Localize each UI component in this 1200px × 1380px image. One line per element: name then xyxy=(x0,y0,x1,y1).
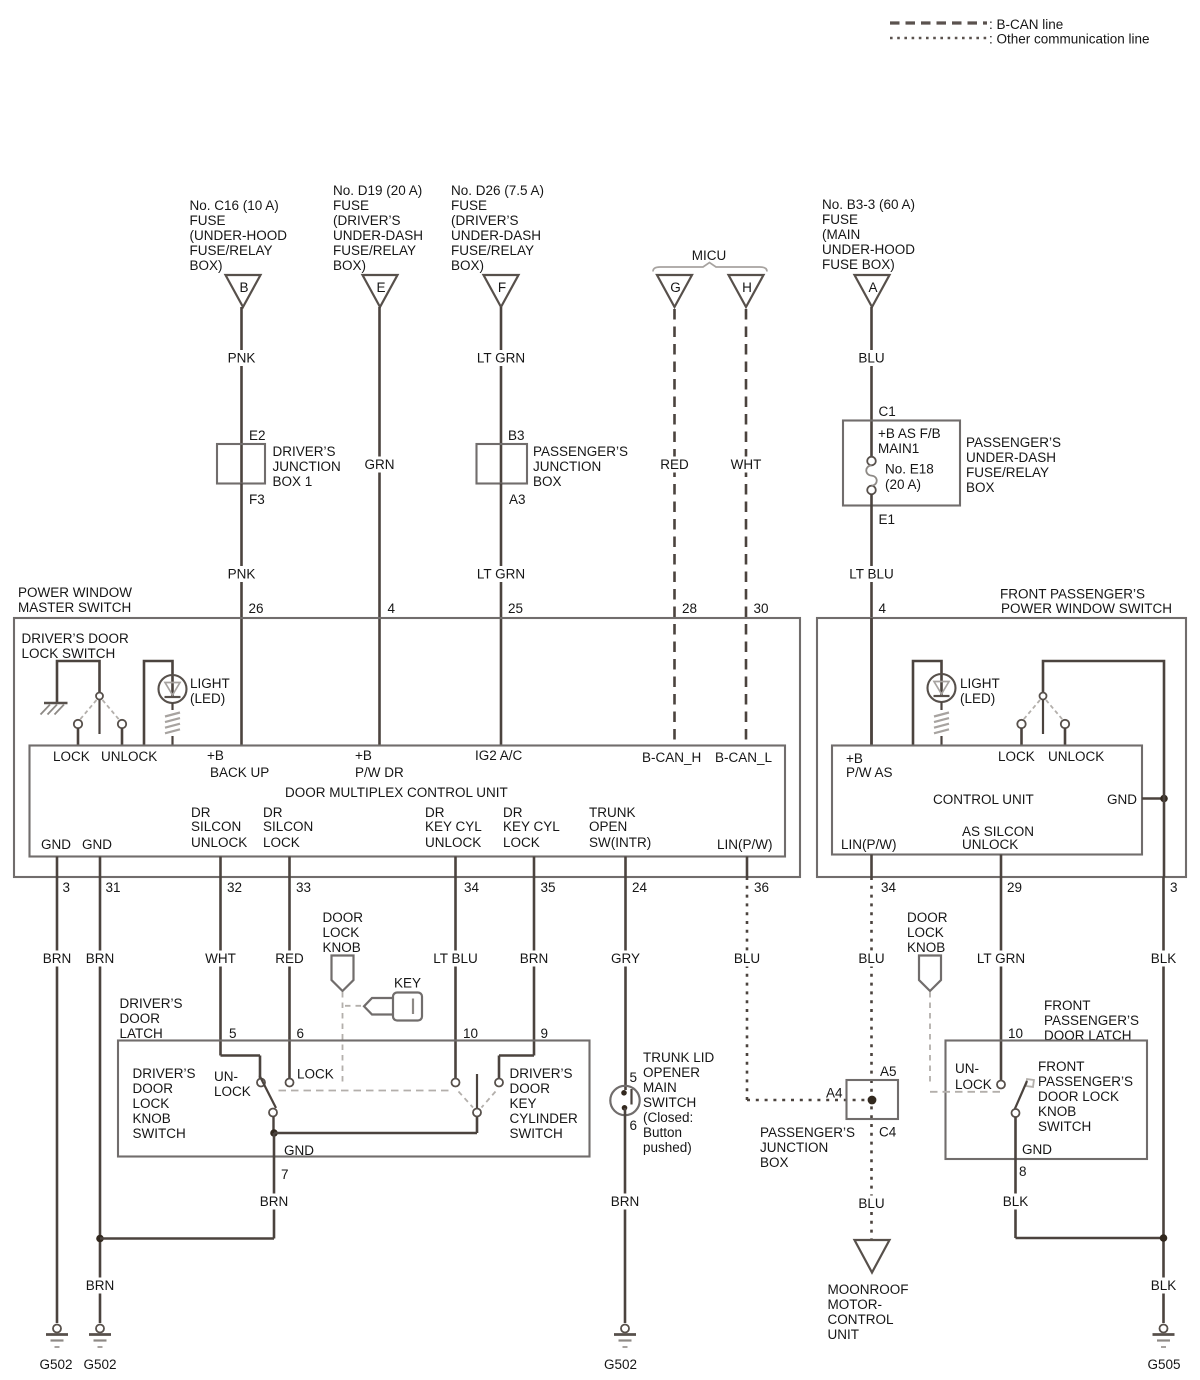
svg-text:34: 34 xyxy=(881,880,897,895)
svg-text:BRN: BRN xyxy=(260,1194,289,1209)
svg-text:KEY: KEY xyxy=(394,976,421,991)
svg-text:UNLOCK: UNLOCK xyxy=(191,835,247,850)
key cylinder actuator xyxy=(476,1074,478,1108)
svg-text:10: 10 xyxy=(463,1026,478,1041)
svg-text:CONTROL: CONTROL xyxy=(828,1312,894,1327)
svg-text:P/W DR: P/W DR xyxy=(355,765,404,780)
UN-LOCK label xyxy=(214,1069,251,1099)
svg-text:DRIVER’S: DRIVER’S xyxy=(510,1066,573,1081)
driver door lock knob switch label xyxy=(133,1066,196,1141)
UN-LOCK label right xyxy=(955,1061,992,1092)
driver LED resistor xyxy=(165,703,180,746)
svg-text:29: 29 xyxy=(1007,880,1022,895)
svg-text:(20 A): (20 A) xyxy=(885,477,921,492)
svg-text:DRIVER’S: DRIVER’S xyxy=(273,444,336,459)
svg-text:P/W AS: P/W AS xyxy=(846,765,893,780)
passenger switch dashed throws xyxy=(1024,700,1063,720)
driver door key cylinder switch label xyxy=(510,1066,579,1141)
wire RED pin 33 to latch xyxy=(272,857,308,1079)
svg-text:POWER WINDOW SWITCH: POWER WINDOW SWITCH xyxy=(1001,601,1172,616)
svg-text:6: 6 xyxy=(297,1026,305,1041)
svg-text:MASTER SWITCH: MASTER SWITCH xyxy=(18,600,131,615)
svg-text:B-CAN_L: B-CAN_L xyxy=(715,750,773,765)
svg-text:BACK UP: BACK UP xyxy=(210,765,269,780)
svg-text:G502: G502 xyxy=(604,1357,637,1372)
svg-text:C4: C4 xyxy=(879,1125,897,1140)
svg-text:TRUNK LID: TRUNK LID xyxy=(643,1050,715,1065)
svg-text:DR: DR xyxy=(191,805,211,820)
key cylinder pivot xyxy=(473,1109,481,1117)
svg-text:GRN: GRN xyxy=(365,457,395,472)
svg-text:3: 3 xyxy=(1170,880,1178,895)
fuse No. E18 symbol xyxy=(866,457,877,495)
svg-text:LOCK: LOCK xyxy=(214,1084,251,1099)
svg-text:35: 35 xyxy=(541,880,556,895)
svg-text:30: 30 xyxy=(754,601,769,616)
svg-text:25: 25 xyxy=(508,601,523,616)
svg-text:MICU: MICU xyxy=(692,248,727,263)
key cylinder lock contact xyxy=(495,1079,503,1087)
svg-text:UNLOCK: UNLOCK xyxy=(1048,749,1104,764)
svg-text:DOOR: DOOR xyxy=(907,910,948,925)
driver door latch label xyxy=(120,996,183,1041)
wire BRN pin 31 to G502 xyxy=(83,857,117,1324)
svg-text:UNDER-DASH: UNDER-DASH xyxy=(451,228,541,243)
svg-text:OPENER: OPENER xyxy=(643,1065,700,1080)
driver junction box 1 xyxy=(217,428,266,507)
svg-text:UNLOCK: UNLOCK xyxy=(425,835,481,850)
svg-text:LOCK: LOCK xyxy=(263,835,300,850)
svg-text:BLK: BLK xyxy=(1151,951,1177,966)
svg-text:BOX 1: BOX 1 xyxy=(273,474,313,489)
svg-text:A4: A4 xyxy=(826,1086,843,1101)
svg-text:KEY: KEY xyxy=(510,1096,537,1111)
wire BRN pin 35 to latch xyxy=(499,857,552,1079)
fuse connector E xyxy=(363,275,398,307)
svg-text:UN-: UN- xyxy=(955,1061,979,1076)
svg-text:LT BLU: LT BLU xyxy=(849,567,894,582)
svg-text:FUSE/RELAY: FUSE/RELAY xyxy=(966,465,1049,480)
svg-text:FRONT PASSENGER’S: FRONT PASSENGER’S xyxy=(1000,587,1145,602)
front passenger door latch label xyxy=(1044,998,1139,1043)
trunk lid opener main switch xyxy=(610,1086,639,1115)
svg-text:BRN: BRN xyxy=(86,951,115,966)
svg-text:LT GRN: LT GRN xyxy=(977,951,1025,966)
svg-text:CONTROL UNIT: CONTROL UNIT xyxy=(933,792,1034,807)
svg-text:DR: DR xyxy=(425,805,445,820)
wire LT GRN pin 29 to latch xyxy=(973,855,1029,1081)
wire GRY pin 24 to trunk switch xyxy=(608,857,644,1091)
svg-text:BLU: BLU xyxy=(858,351,884,366)
svg-text:4: 4 xyxy=(388,601,396,616)
svg-text:DOOR: DOOR xyxy=(120,1011,161,1026)
svg-text:PASSENGER’S: PASSENGER’S xyxy=(760,1125,855,1140)
wire WHT pin 32 to latch xyxy=(201,857,261,1079)
svg-text:H: H xyxy=(742,280,752,295)
svg-text:B-CAN_H: B-CAN_H xyxy=(642,750,701,765)
svg-text:FUSE BOX): FUSE BOX) xyxy=(822,257,895,272)
svg-text:DOOR MULTIPLEX CONTROL UNIT: DOOR MULTIPLEX CONTROL UNIT xyxy=(285,785,508,800)
key cylinder unlock contact xyxy=(452,1079,460,1087)
front passenger power window switch label xyxy=(1000,587,1172,617)
svg-text:36: 36 xyxy=(754,880,769,895)
svg-text:G505: G505 xyxy=(1147,1357,1180,1372)
wire RED B-CAN from MICU G to pin 28 xyxy=(656,309,694,746)
passenger LED loop wire xyxy=(913,661,942,746)
MICU connector G xyxy=(657,275,692,307)
svg-text:SWITCH: SWITCH xyxy=(1038,1119,1091,1134)
junction dot BRN rail xyxy=(96,1235,104,1243)
svg-text:(DRIVER’S: (DRIVER’S xyxy=(451,213,519,228)
MICU connector H xyxy=(729,275,764,307)
svg-text:GRY: GRY xyxy=(611,951,640,966)
svg-text:33: 33 xyxy=(296,880,311,895)
svg-text:PNK: PNK xyxy=(228,351,256,366)
svg-text:IG2 A/C: IG2 A/C xyxy=(475,748,523,763)
passenger junction box (top) xyxy=(477,428,528,507)
svg-text:BRN: BRN xyxy=(86,1278,115,1293)
svg-text:No. D26 (7.5 A): No. D26 (7.5 A) xyxy=(451,183,544,198)
wire BLK pin 3 to G505 xyxy=(1147,877,1181,1323)
GND rail to key cylinder xyxy=(274,1117,477,1134)
svg-text:10: 10 xyxy=(1008,1026,1023,1041)
driver LED loop wire xyxy=(144,661,173,746)
svg-text:MAIN1: MAIN1 xyxy=(878,441,919,456)
front passenger door lock knob switch label xyxy=(1038,1059,1133,1134)
passenger junction box (bottom) xyxy=(847,1080,899,1119)
svg-text:FUSE/RELAY: FUSE/RELAY xyxy=(451,243,534,258)
wire LT BLU from fuse box E1 to pin 4 xyxy=(846,494,898,746)
svg-text:(Closed:: (Closed: xyxy=(643,1110,693,1125)
svg-text:LOCK: LOCK xyxy=(998,749,1035,764)
svg-text:SWITCH: SWITCH xyxy=(133,1126,186,1141)
svg-text:BLK: BLK xyxy=(1003,1194,1029,1209)
wire BLU LIN pin 36 dotted xyxy=(730,857,868,1101)
knob switch arm xyxy=(260,1076,277,1109)
svg-text:BLU: BLU xyxy=(858,951,884,966)
svg-text:WHT: WHT xyxy=(731,457,762,472)
dashed link knob to switch xyxy=(342,992,344,1086)
svg-text:F3: F3 xyxy=(249,492,265,507)
svg-text:(LED): (LED) xyxy=(960,691,995,706)
svg-text:RED: RED xyxy=(660,457,689,472)
svg-text:5: 5 xyxy=(229,1026,237,1041)
knob switch pivot xyxy=(269,1109,277,1132)
svg-text:No. C16 (10 A): No. C16 (10 A) xyxy=(190,198,279,213)
svg-text:: Other communication line: : Other communication line xyxy=(989,32,1150,47)
wire PNK from fuse B to junction box E2 xyxy=(223,307,261,444)
svg-text:JUNCTION: JUNCTION xyxy=(273,459,341,474)
legend B-CAN line sample xyxy=(890,17,1063,32)
svg-text:Button: Button xyxy=(643,1125,682,1140)
door lock knob symbol left xyxy=(332,956,354,992)
svg-text:GND: GND xyxy=(82,837,112,852)
svg-text:E: E xyxy=(376,280,385,295)
fuse No. C16 label xyxy=(190,198,288,273)
driver door lock switch label xyxy=(22,631,130,661)
svg-text:GND: GND xyxy=(1107,792,1137,807)
svg-text:FRONT: FRONT xyxy=(1044,998,1091,1013)
wire PNK from junction box F3 to pin 26 xyxy=(223,484,261,746)
svg-text:KNOB: KNOB xyxy=(133,1111,171,1126)
svg-text:BOX): BOX) xyxy=(451,258,484,273)
passenger knob pivot xyxy=(1012,1109,1020,1117)
svg-text:FUSE: FUSE xyxy=(190,213,226,228)
svg-text:F: F xyxy=(498,280,506,295)
svg-text:BLK: BLK xyxy=(1151,1278,1177,1293)
junction dot BLK rail xyxy=(1160,1234,1168,1242)
fuse No. D19 label xyxy=(333,183,423,273)
svg-text:GND: GND xyxy=(41,837,71,852)
svg-text:No. E18: No. E18 xyxy=(885,462,934,477)
wire LT BLU pin 34 to latch xyxy=(431,857,481,1079)
power window master switch box xyxy=(14,618,800,877)
ground G502 left xyxy=(39,1325,72,1373)
svg-text:DR: DR xyxy=(263,805,283,820)
passenger LED light xyxy=(928,674,956,702)
svg-text:31: 31 xyxy=(106,880,121,895)
moonroof connector triangle xyxy=(855,1240,890,1273)
MICU label and brace xyxy=(653,248,767,272)
svg-text:SILCON: SILCON xyxy=(191,819,241,834)
svg-text:FUSE: FUSE xyxy=(822,212,858,227)
svg-text:LOCK SWITCH: LOCK SWITCH xyxy=(22,646,116,661)
svg-text:LIN(P/W): LIN(P/W) xyxy=(717,837,773,852)
svg-text:BOX: BOX xyxy=(533,474,562,489)
svg-text:6: 6 xyxy=(630,1118,638,1133)
svg-text:DRIVER’S: DRIVER’S xyxy=(120,996,183,1011)
svg-text:8: 8 xyxy=(1019,1164,1027,1179)
wire BLU from fuse A to fuse box C1 xyxy=(855,307,896,457)
svg-text:LOCK: LOCK xyxy=(323,925,360,940)
svg-text:KNOB: KNOB xyxy=(1038,1104,1076,1119)
svg-text:UNLOCK: UNLOCK xyxy=(101,749,157,764)
wire LT GRN from fuse F to junction box B3 xyxy=(473,307,529,444)
wire +B P/W AS inside switch xyxy=(870,618,873,746)
knob switch unlock contact xyxy=(257,1079,265,1087)
door multiplex control unit box xyxy=(30,746,786,857)
svg-text:POWER WINDOW: POWER WINDOW xyxy=(18,585,132,600)
svg-text:PASSENGER’S: PASSENGER’S xyxy=(966,435,1061,450)
passenger knob arm xyxy=(1015,1081,1027,1109)
driver lock contact xyxy=(74,720,82,746)
svg-text:7: 7 xyxy=(281,1167,289,1182)
svg-text:BOX): BOX) xyxy=(190,258,223,273)
svg-text:B3: B3 xyxy=(508,428,525,443)
svg-text:LIN(P/W): LIN(P/W) xyxy=(841,837,897,852)
trunk lid opener label xyxy=(643,1050,715,1155)
svg-text:A: A xyxy=(868,280,877,295)
svg-text:A5: A5 xyxy=(880,1064,897,1079)
svg-text:LOCK: LOCK xyxy=(503,835,540,850)
svg-text:BLU: BLU xyxy=(858,1196,884,1211)
door lock knob label left xyxy=(323,910,364,955)
svg-text:PASSENGER’S: PASSENGER’S xyxy=(533,444,628,459)
svg-text:+B: +B xyxy=(846,751,863,766)
svg-text:28: 28 xyxy=(682,601,697,616)
front passenger door latch box xyxy=(946,1041,1148,1160)
svg-text:UNDER-HOOD: UNDER-HOOD xyxy=(822,242,915,257)
svg-text:(LED): (LED) xyxy=(190,691,225,706)
svg-text:KEY CYL: KEY CYL xyxy=(503,819,560,834)
svg-text:TRUNK: TRUNK xyxy=(589,805,636,820)
passenger junction box label xyxy=(760,1125,855,1170)
svg-text:UN-: UN- xyxy=(214,1069,238,1084)
svg-text:(UNDER-HOOD: (UNDER-HOOD xyxy=(190,228,288,243)
svg-text:LT GRN: LT GRN xyxy=(477,351,525,366)
wire BLU LIN pin 34 dotted xyxy=(855,855,889,1241)
svg-text:SILCON: SILCON xyxy=(263,819,313,834)
ground hatch of driver door lock switch xyxy=(41,703,68,715)
svg-text:BRN: BRN xyxy=(43,951,72,966)
svg-text:BOX): BOX) xyxy=(333,258,366,273)
passenger LED resistor xyxy=(934,702,949,746)
wire GRN from fuse E to pin 4 xyxy=(360,307,400,746)
fuse No. D26 label xyxy=(451,183,544,273)
svg-text:A3: A3 xyxy=(509,492,526,507)
svg-text:LATCH: LATCH xyxy=(120,1026,163,1041)
front passenger power window switch box xyxy=(817,618,1186,877)
driver door lock switch dashed throws xyxy=(80,700,119,720)
svg-text:FUSE: FUSE xyxy=(333,198,369,213)
dashed link knob to passenger latch xyxy=(930,992,1004,1092)
svg-text:DOOR LOCK: DOOR LOCK xyxy=(1038,1089,1119,1104)
svg-text:LIGHT: LIGHT xyxy=(190,676,230,691)
svg-text:BLU: BLU xyxy=(734,951,760,966)
svg-text:DR: DR xyxy=(503,805,523,820)
svg-text:WHT: WHT xyxy=(205,951,236,966)
svg-text:LOCK: LOCK xyxy=(955,1077,992,1092)
svg-text:9: 9 xyxy=(541,1026,549,1041)
wire WHT B-CAN from MICU H to pin 30 xyxy=(726,309,766,746)
svg-text:G: G xyxy=(670,280,681,295)
svg-text:32: 32 xyxy=(227,880,242,895)
control unit labels xyxy=(841,749,1137,852)
svg-text:MOONROOF: MOONROOF xyxy=(828,1282,909,1297)
driver junction box 1 label xyxy=(273,444,341,489)
svg-text:FUSE/RELAY: FUSE/RELAY xyxy=(333,243,416,258)
passenger knob unlock contact xyxy=(997,1081,1005,1089)
svg-text:pushed): pushed) xyxy=(643,1140,692,1155)
wire BRN pin 7 to BRN rail xyxy=(100,1133,292,1239)
svg-text:(MAIN: (MAIN xyxy=(822,227,860,242)
svg-text:MOTOR-: MOTOR- xyxy=(828,1297,883,1312)
fuse connector B xyxy=(226,275,261,307)
passenger junction box (top) label xyxy=(533,444,628,489)
driver LED label xyxy=(190,676,230,706)
ground G505 xyxy=(1147,1325,1180,1373)
key symbol xyxy=(364,993,422,1021)
GND junction dot xyxy=(270,1129,278,1137)
driver door latch box xyxy=(118,1041,590,1157)
svg-text:PASSENGER’S: PASSENGER’S xyxy=(1038,1074,1133,1089)
knob switch lock contact xyxy=(286,1079,294,1087)
svg-text:UNLOCK: UNLOCK xyxy=(962,837,1018,852)
fuse connector F xyxy=(484,275,519,307)
svg-text:DOOR: DOOR xyxy=(510,1081,551,1096)
svg-text:LOCK: LOCK xyxy=(297,1067,334,1082)
wire LT GRN from junction box A3 to pin 25 xyxy=(473,484,529,746)
door multiplex control unit bottom pin labels xyxy=(41,805,773,852)
svg-text:GND: GND xyxy=(1022,1142,1052,1157)
svg-text:34: 34 xyxy=(464,880,480,895)
svg-text:24: 24 xyxy=(632,880,648,895)
svg-text:5: 5 xyxy=(630,1070,638,1085)
door lock knob label right xyxy=(907,910,948,955)
svg-text:LOCK: LOCK xyxy=(133,1096,170,1111)
passenger under-dash fuse/relay box xyxy=(843,421,960,506)
svg-text:CYLINDER: CYLINDER xyxy=(510,1111,579,1126)
svg-text:UNIT: UNIT xyxy=(828,1327,860,1342)
dashed link key to knob line xyxy=(345,1005,362,1007)
svg-text:KNOB: KNOB xyxy=(907,940,945,955)
svg-text:E2: E2 xyxy=(249,428,266,443)
svg-text:KEY CYL: KEY CYL xyxy=(425,819,482,834)
svg-text:FUSE/RELAY: FUSE/RELAY xyxy=(190,243,273,258)
svg-text:PNK: PNK xyxy=(228,567,256,582)
wire BLK pin 8 to BLK rail xyxy=(999,1117,1164,1238)
svg-text:UNDER-DASH: UNDER-DASH xyxy=(966,450,1056,465)
legend Other communication line sample xyxy=(890,32,1150,47)
driver door lock switch wiring loop xyxy=(57,661,100,702)
svg-text:B: B xyxy=(239,280,248,295)
dashed link between switches xyxy=(279,1090,452,1092)
passenger under-dash fuse/relay box label xyxy=(966,435,1061,495)
passenger knob lock contact square xyxy=(1026,1079,1034,1087)
moonroof motor-control unit label xyxy=(828,1282,909,1342)
svg-text:4: 4 xyxy=(879,601,887,616)
svg-text:No. D19 (20 A): No. D19 (20 A) xyxy=(333,183,422,198)
svg-text:C1: C1 xyxy=(879,404,896,419)
svg-text:JUNCTION: JUNCTION xyxy=(760,1140,828,1155)
svg-text:: B-CAN line: : B-CAN line xyxy=(989,17,1063,32)
svg-text:+B: +B xyxy=(355,748,372,763)
svg-text:No. B3-3 (60 A): No. B3-3 (60 A) xyxy=(822,197,915,212)
fuse box internal labels xyxy=(878,426,941,492)
svg-text:OPEN: OPEN xyxy=(589,819,627,834)
svg-text:LOCK: LOCK xyxy=(53,749,90,764)
ground G502 second xyxy=(83,1325,116,1373)
driver door lock switch pivot xyxy=(96,693,103,735)
wire BRN pin 3 to G502 xyxy=(40,857,74,1324)
svg-text:SWITCH: SWITCH xyxy=(643,1095,696,1110)
svg-text:PASSENGER’S: PASSENGER’S xyxy=(1044,1013,1139,1028)
passenger unlock contact xyxy=(1061,720,1069,746)
svg-text:FRONT: FRONT xyxy=(1038,1059,1085,1074)
passenger switch loop to GND rail xyxy=(1043,661,1164,795)
power window master switch label xyxy=(18,585,132,615)
door multiplex control unit top pin labels xyxy=(53,748,773,780)
svg-text:UNDER-DASH: UNDER-DASH xyxy=(333,228,423,243)
svg-text:JUNCTION: JUNCTION xyxy=(533,459,601,474)
svg-text:G502: G502 xyxy=(83,1357,116,1372)
svg-text:DOOR: DOOR xyxy=(133,1081,174,1096)
GND stub and junction dot xyxy=(1142,795,1168,877)
svg-text:DRIVER’S: DRIVER’S xyxy=(133,1066,196,1081)
svg-text:BRN: BRN xyxy=(611,1194,640,1209)
driver unlock contact xyxy=(118,720,126,746)
svg-text:DRIVER’S DOOR: DRIVER’S DOOR xyxy=(22,631,130,646)
svg-text:BRN: BRN xyxy=(520,951,549,966)
svg-text:LOCK: LOCK xyxy=(907,925,944,940)
passenger switch pivot xyxy=(1040,693,1047,735)
svg-text:BOX: BOX xyxy=(760,1155,789,1170)
svg-text:3: 3 xyxy=(63,880,71,895)
junction labels xyxy=(826,1064,897,1140)
passenger lock contact xyxy=(1017,720,1025,746)
control unit box xyxy=(832,746,1142,855)
svg-text:GND: GND xyxy=(284,1143,314,1158)
